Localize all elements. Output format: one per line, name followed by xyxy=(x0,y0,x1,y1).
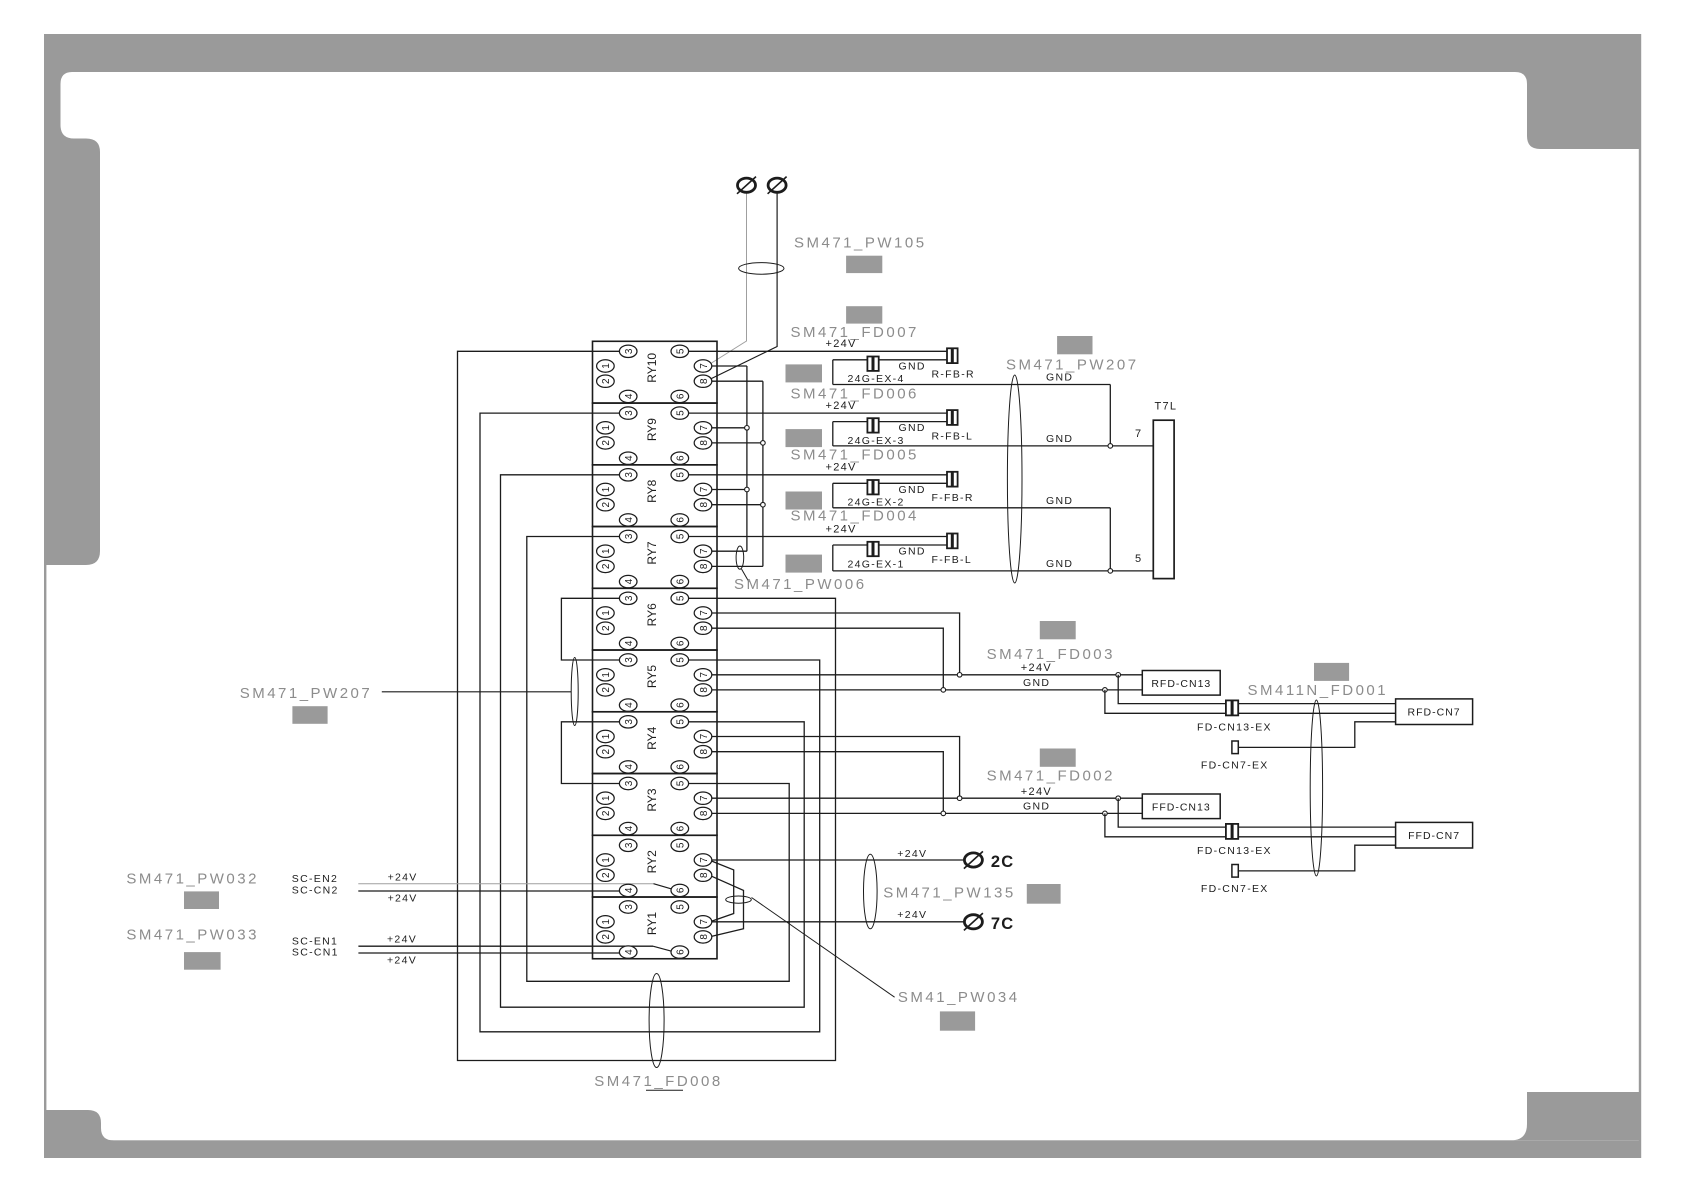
wire RY10 pin3 to RY6 pin5 loop xyxy=(458,351,836,1060)
relay RY3 xyxy=(593,774,718,836)
svg-text:SC-EN1: SC-EN1 xyxy=(292,935,338,947)
svg-text:RY1: RY1 xyxy=(645,912,659,935)
junction SM471_FD003 GND a xyxy=(941,688,946,693)
wire RY8 pin3 to RY4 pin5 loop xyxy=(501,475,805,1007)
svg-text:6: 6 xyxy=(676,702,687,708)
svg-text:4: 4 xyxy=(624,578,635,584)
svg-text:GND: GND xyxy=(899,546,926,558)
svg-text:3: 3 xyxy=(624,904,635,910)
svg-text:5: 5 xyxy=(676,595,687,601)
wire rail RY10 pin7 to RY7 pin7 xyxy=(712,366,747,551)
svg-text:4: 4 xyxy=(624,517,635,523)
svg-text:SM411N_FD001: SM411N_FD001 xyxy=(1248,682,1389,699)
svg-text:SM471_FD002: SM471_FD002 xyxy=(987,768,1115,785)
net +24V RY2 pin7 to 2C xyxy=(712,848,965,860)
svg-text:2: 2 xyxy=(601,625,612,631)
svg-text:5: 5 xyxy=(676,410,687,416)
svg-text:24G-EX-1: 24G-EX-1 xyxy=(848,558,905,570)
svg-text:T7L: T7L xyxy=(1155,401,1178,413)
net SC-CN2 xyxy=(292,885,620,905)
terminal circle right xyxy=(768,177,787,194)
svg-text:8: 8 xyxy=(699,563,710,569)
wire rail RY10 pin8 to RY7 pin8 xyxy=(712,381,763,566)
svg-text:GND: GND xyxy=(1023,801,1050,813)
svg-text:3: 3 xyxy=(624,348,635,354)
fuse 24G-EX-3 xyxy=(867,418,878,432)
svg-text:7: 7 xyxy=(699,548,710,554)
svg-text:SM471_FD003: SM471_FD003 xyxy=(987,646,1115,663)
svg-text:GND: GND xyxy=(1046,433,1073,445)
svg-text:4: 4 xyxy=(624,393,635,399)
cable marker SM471_PW207 right xyxy=(1007,375,1022,583)
svg-text:5: 5 xyxy=(676,842,687,848)
wire FFD-CN13 to FFD-CN7 line2 xyxy=(1105,813,1396,836)
svg-text:4: 4 xyxy=(624,640,635,646)
svg-text:SM471_PW207: SM471_PW207 xyxy=(240,685,373,702)
marker rect row F-FB-R xyxy=(786,492,823,510)
connector FD-CN13-EX xyxy=(1226,824,1238,839)
net GND SM471_FD003 xyxy=(712,677,1143,690)
svg-text:+24V: +24V xyxy=(897,848,927,860)
wire RY4 pin3 to RY3 pin3 xyxy=(561,722,619,784)
svg-text:1: 1 xyxy=(601,548,612,554)
net SC-EN2 xyxy=(292,871,672,889)
svg-text:F-FB-L: F-FB-L xyxy=(932,554,972,566)
relay RY6 xyxy=(593,588,718,650)
svg-text:4: 4 xyxy=(624,702,635,708)
connector R-FB-R xyxy=(947,348,958,363)
svg-text:2: 2 xyxy=(601,378,612,384)
svg-text:SM471_FD008: SM471_FD008 xyxy=(594,1073,722,1090)
svg-text:2: 2 xyxy=(601,501,612,507)
svg-text:2: 2 xyxy=(601,563,612,569)
cable marker SM471_PW135 xyxy=(864,854,878,929)
connector F-FB-R xyxy=(947,472,958,487)
svg-text:+24V: +24V xyxy=(388,893,418,905)
svg-text:FD-CN7-EX: FD-CN7-EX xyxy=(1201,883,1269,895)
svg-text:7: 7 xyxy=(699,919,710,925)
junction RY8 pin8 xyxy=(761,502,766,507)
connector RFD-CN13 xyxy=(1142,671,1220,696)
svg-text:SM471_PW033: SM471_PW033 xyxy=(126,926,259,943)
svg-text:8: 8 xyxy=(699,810,710,816)
svg-text:6: 6 xyxy=(676,578,687,584)
svg-text:SM41_PW034: SM41_PW034 xyxy=(898,989,1020,1006)
svg-text:1: 1 xyxy=(601,363,612,369)
relay RY8 xyxy=(593,465,718,527)
svg-text:5: 5 xyxy=(676,348,687,354)
connector FD-CN13-EX xyxy=(1226,700,1238,715)
wire right terminal drop to RY10 pin8 xyxy=(712,193,778,378)
junction GND bus lower xyxy=(1108,569,1113,574)
svg-text:RY3: RY3 xyxy=(645,788,659,811)
svg-text:+24V: +24V xyxy=(826,462,857,474)
svg-text:2: 2 xyxy=(601,872,612,878)
marker rect row R-FB-L xyxy=(786,429,823,447)
wire RY6 pin7 drop xyxy=(712,613,960,675)
cable marker SM471_PW207 left xyxy=(571,658,578,726)
svg-text:5: 5 xyxy=(676,719,687,725)
svg-text:8: 8 xyxy=(699,378,710,384)
marker rect row R-FB-R xyxy=(786,364,823,382)
cable marker SM411N_FD001 xyxy=(1310,700,1322,876)
svg-text:F-FB-R: F-FB-R xyxy=(932,492,974,504)
svg-text:+24V: +24V xyxy=(826,338,857,350)
terminal circle left xyxy=(737,177,756,194)
svg-text:6: 6 xyxy=(676,640,687,646)
svg-text:6: 6 xyxy=(676,949,687,955)
svg-text:1: 1 xyxy=(601,486,612,492)
connector R-FB-L xyxy=(947,410,958,425)
wire FFD-CN13 to FFD-CN7 line1 xyxy=(1118,798,1395,827)
svg-text:7: 7 xyxy=(699,795,710,801)
svg-text:24G-EX-3: 24G-EX-3 xyxy=(848,435,905,447)
svg-text:SM471_PW006: SM471_PW006 xyxy=(734,576,867,593)
svg-text:5: 5 xyxy=(676,472,687,478)
wire RFD-CN13 to RFD-CN7 line2 xyxy=(1105,690,1396,713)
svg-text:6: 6 xyxy=(676,393,687,399)
svg-text:SM471_PW032: SM471_PW032 xyxy=(126,870,259,887)
svg-text:RY10: RY10 xyxy=(645,353,659,383)
svg-text:6: 6 xyxy=(676,455,687,461)
connector FD-CN7-EX xyxy=(1232,865,1238,878)
svg-text:2: 2 xyxy=(601,687,612,693)
svg-text:RY2: RY2 xyxy=(645,850,659,873)
svg-text:1: 1 xyxy=(601,425,612,431)
svg-text:6: 6 xyxy=(676,887,687,893)
net GND SM471_FD002 xyxy=(712,801,1143,814)
svg-text:FD-CN13-EX: FD-CN13-EX xyxy=(1197,845,1272,857)
svg-text:8: 8 xyxy=(699,440,710,446)
svg-text:3: 3 xyxy=(624,657,635,663)
svg-text:GND: GND xyxy=(1023,677,1050,689)
svg-text:2: 2 xyxy=(601,934,612,940)
svg-text:FD-CN7-EX: FD-CN7-EX xyxy=(1201,759,1269,771)
svg-text:SM471_PW207: SM471_PW207 xyxy=(1006,357,1139,374)
connector FD-CN7-EX xyxy=(1232,741,1238,754)
svg-text:SM471_PW135: SM471_PW135 xyxy=(883,885,1016,902)
junction SM471_FD003 GND b xyxy=(1103,688,1108,693)
svg-text:SC-EN2: SC-EN2 xyxy=(292,873,338,885)
svg-text:RFD-CN13: RFD-CN13 xyxy=(1151,678,1211,690)
relay RY2 xyxy=(593,835,718,897)
junction RY9 pin8 xyxy=(761,441,766,446)
svg-text:7: 7 xyxy=(699,363,710,369)
relay RY4 xyxy=(593,712,718,774)
svg-text:4: 4 xyxy=(624,455,635,461)
svg-text:2: 2 xyxy=(601,440,612,446)
junction SM471_FD003 +24V b xyxy=(1116,673,1121,678)
svg-text:+24V: +24V xyxy=(387,955,417,967)
svg-text:+24V: +24V xyxy=(826,523,857,535)
svg-text:7: 7 xyxy=(1135,428,1142,440)
svg-text:4: 4 xyxy=(624,949,635,955)
wire RY6 pin3 to RY5 pin3 xyxy=(561,598,619,660)
svg-text:3: 3 xyxy=(624,780,635,786)
wire RFD-CN13 to RFD-CN7 line1 xyxy=(1118,675,1395,704)
connector FFD-CN13 xyxy=(1142,794,1220,819)
label SM471_FD008 xyxy=(594,1073,722,1090)
leader SM471_PW207 left xyxy=(382,691,571,693)
svg-text:RY9: RY9 xyxy=(645,418,659,441)
junction RY9 pin7 xyxy=(745,426,750,431)
net SC-EN1 xyxy=(292,934,672,952)
svg-text:R-FB-L: R-FB-L xyxy=(932,430,974,442)
svg-text:FD-CN13-EX: FD-CN13-EX xyxy=(1197,721,1272,733)
svg-text:7C: 7C xyxy=(991,915,1015,933)
wire GND return row F-FB-R xyxy=(833,483,1111,571)
svg-text:SM471_PW105: SM471_PW105 xyxy=(794,235,927,252)
junction SM471_FD003 +24V a xyxy=(957,673,962,678)
svg-text:3: 3 xyxy=(624,410,635,416)
svg-text:RY7: RY7 xyxy=(645,541,659,564)
svg-text:RY6: RY6 xyxy=(645,603,659,626)
wire RY4 pin8 drop xyxy=(712,752,944,814)
cable marker SM471_PW105 xyxy=(739,263,784,275)
terminal 7C xyxy=(964,913,983,930)
net +24V SM471_FD002 xyxy=(712,786,1143,798)
net SC-CN1 xyxy=(292,947,620,967)
svg-text:GND: GND xyxy=(1046,558,1073,570)
svg-text:RY5: RY5 xyxy=(645,665,659,688)
connector F-FB-L xyxy=(947,534,958,549)
wire FFD-CN7 to FD-CN7-EX xyxy=(1238,845,1395,871)
svg-text:8: 8 xyxy=(699,687,710,693)
svg-text:7: 7 xyxy=(699,610,710,616)
svg-text:GND: GND xyxy=(899,484,926,496)
cable marker SM471_FD008 xyxy=(649,974,664,1068)
svg-text:2C: 2C xyxy=(991,853,1015,871)
wire left terminal drop to RY10 pin7 xyxy=(712,193,747,363)
svg-text:+24V: +24V xyxy=(826,400,857,412)
svg-text:3: 3 xyxy=(624,595,635,601)
svg-text:6: 6 xyxy=(676,517,687,523)
cable marker SM471_PW006 xyxy=(736,546,744,569)
svg-text:RY4: RY4 xyxy=(645,726,659,749)
svg-text:SM471_FD004: SM471_FD004 xyxy=(791,508,919,525)
wire RY7 pin3 to RY3 pin5 loop xyxy=(527,537,789,982)
svg-text:4: 4 xyxy=(624,825,635,831)
svg-text:8: 8 xyxy=(699,934,710,940)
cable marker SM41_PW034 xyxy=(726,896,752,903)
svg-text:+24V: +24V xyxy=(388,871,418,883)
svg-text:5: 5 xyxy=(676,657,687,663)
svg-text:1: 1 xyxy=(601,672,612,678)
wire GND return row R-FB-R xyxy=(833,360,1111,446)
junction SM471_FD002 GND b xyxy=(1103,811,1108,816)
svg-text:+24V: +24V xyxy=(897,909,927,921)
marker rect row F-FB-L xyxy=(786,555,823,573)
svg-text:2: 2 xyxy=(601,748,612,754)
wire RFD-CN7 to FD-CN7-EX xyxy=(1238,722,1395,748)
wire GND return row R-FB-L xyxy=(833,422,1154,446)
svg-text:8: 8 xyxy=(699,501,710,507)
svg-text:GND: GND xyxy=(899,360,926,372)
junction SM471_FD002 +24V a xyxy=(957,796,962,801)
svg-text:+24V: +24V xyxy=(1021,662,1052,674)
junction RY8 pin7 xyxy=(745,487,750,492)
svg-text:7: 7 xyxy=(699,425,710,431)
svg-text:4: 4 xyxy=(624,887,635,893)
svg-text:RFD-CN7: RFD-CN7 xyxy=(1408,707,1461,719)
svg-text:1: 1 xyxy=(601,795,612,801)
fuse 24G-EX-1 xyxy=(867,542,878,556)
svg-text:5: 5 xyxy=(676,780,687,786)
svg-text:3: 3 xyxy=(624,842,635,848)
fuse 24G-EX-4 xyxy=(867,357,878,371)
svg-text:1: 1 xyxy=(601,919,612,925)
svg-text:2: 2 xyxy=(601,810,612,816)
connector T7L xyxy=(1153,420,1174,578)
terminal 2C xyxy=(964,851,983,868)
svg-text:5: 5 xyxy=(1135,553,1142,565)
fuse 24G-EX-2 xyxy=(867,480,878,494)
wire RY6 pin8 drop xyxy=(712,628,944,690)
svg-text:FFD-CN7: FFD-CN7 xyxy=(1408,830,1460,842)
svg-text:3: 3 xyxy=(624,472,635,478)
leader SM41_PW034 xyxy=(752,898,895,998)
svg-text:5: 5 xyxy=(676,533,687,539)
svg-text:SC-CN1: SC-CN1 xyxy=(292,947,339,959)
svg-text:+24V: +24V xyxy=(387,934,417,946)
svg-text:+24V: +24V xyxy=(1021,786,1052,798)
wire RY2 pin7 to RY1 pin7 link xyxy=(712,861,734,921)
wire GND return row F-FB-L xyxy=(833,545,1154,571)
svg-text:1: 1 xyxy=(601,733,612,739)
svg-text:7: 7 xyxy=(699,486,710,492)
connector FFD-CN7 xyxy=(1396,822,1473,848)
svg-text:GND: GND xyxy=(1046,495,1073,507)
svg-text:R-FB-R: R-FB-R xyxy=(932,369,975,381)
connector RFD-CN7 xyxy=(1396,699,1473,725)
svg-text:1: 1 xyxy=(601,857,612,863)
junction GND bus upper xyxy=(1108,444,1113,449)
svg-text:7: 7 xyxy=(699,733,710,739)
svg-text:RY8: RY8 xyxy=(645,479,659,502)
relay RY7 xyxy=(593,527,718,589)
svg-text:6: 6 xyxy=(676,825,687,831)
marker rect SM471_FD007 xyxy=(846,306,882,323)
svg-text:7: 7 xyxy=(699,672,710,678)
wire RY2 pin8 to RY1 pin8 link xyxy=(712,876,744,936)
svg-text:FFD-CN13: FFD-CN13 xyxy=(1152,802,1211,814)
svg-text:3: 3 xyxy=(624,719,635,725)
svg-text:3: 3 xyxy=(624,533,635,539)
junction SM471_FD002 GND a xyxy=(941,811,946,816)
wire RY4 pin7 drop xyxy=(712,737,960,799)
net +24V RY1 pin7 to 7C xyxy=(712,909,965,922)
net +24V SM471_FD003 xyxy=(712,662,1143,675)
wire RY9 pin3 to RY5 pin5 loop xyxy=(480,413,820,1032)
svg-text:7: 7 xyxy=(699,857,710,863)
junction SM471_FD002 +24V b xyxy=(1116,796,1121,801)
svg-text:5: 5 xyxy=(676,904,687,910)
svg-text:SC-CN2: SC-CN2 xyxy=(292,885,339,897)
svg-text:8: 8 xyxy=(699,748,710,754)
svg-text:24G-EX-4: 24G-EX-4 xyxy=(848,373,905,385)
svg-text:GND: GND xyxy=(899,422,926,434)
relay RY9 xyxy=(593,403,718,465)
relay RY10 xyxy=(593,341,718,403)
svg-text:8: 8 xyxy=(699,872,710,878)
svg-text:1: 1 xyxy=(601,610,612,616)
svg-text:6: 6 xyxy=(676,764,687,770)
svg-text:8: 8 xyxy=(699,625,710,631)
svg-text:4: 4 xyxy=(624,764,635,770)
relay RY1 xyxy=(593,897,718,959)
relay RY5 xyxy=(593,650,718,712)
